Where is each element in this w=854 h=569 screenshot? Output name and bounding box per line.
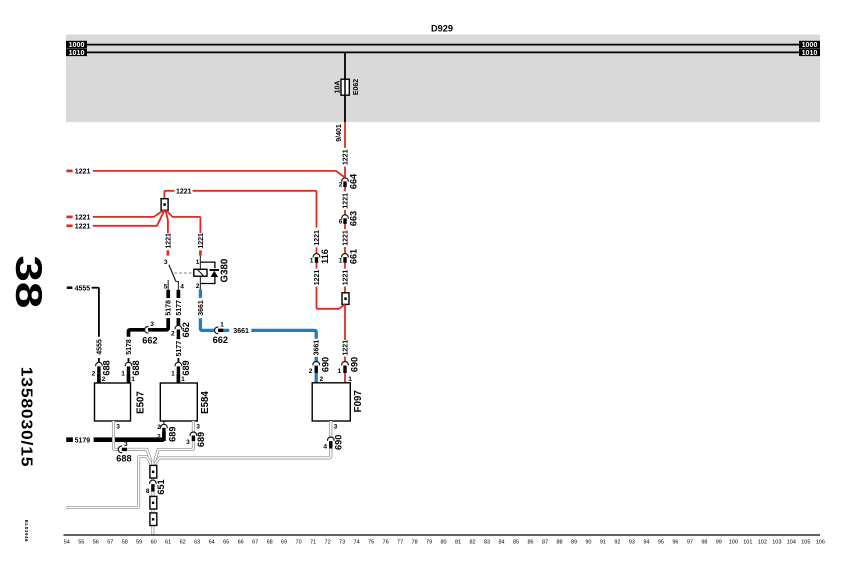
svg-text:60: 60: [151, 539, 157, 545]
svg-text:75: 75: [368, 539, 374, 545]
wire bus 1000: [86, 44, 800, 46]
relay contact pin 4: [176, 282, 179, 290]
relay contact pin 5: [167, 280, 169, 290]
svg-text:87: 87: [542, 539, 548, 545]
svg-text:E507: E507: [136, 391, 147, 414]
svg-text:3661: 3661: [314, 340, 321, 356]
splice junction upper: [161, 199, 168, 211]
wire 1221 into F097 pin 1: [342, 362, 349, 374]
svg-text:2: 2: [171, 331, 175, 338]
svg-text:70: 70: [296, 539, 302, 545]
wire 1221 to relay contact: [166, 210, 168, 233]
connector 689 pin 2: [163, 421, 165, 428]
svg-text:71: 71: [310, 539, 316, 545]
svg-text:116: 116: [320, 249, 330, 264]
svg-text:90: 90: [585, 539, 591, 545]
svg-text:56: 56: [93, 539, 99, 545]
svg-text:1221: 1221: [342, 340, 349, 356]
svg-text:5: 5: [164, 284, 168, 291]
svg-text:5179: 5179: [75, 437, 91, 444]
svg-text:58: 58: [122, 539, 128, 545]
svg-text:3: 3: [124, 441, 128, 448]
svg-text:662: 662: [213, 335, 228, 345]
svg-text:102: 102: [758, 539, 767, 545]
svg-text:1: 1: [171, 371, 175, 378]
svg-text:82: 82: [469, 539, 475, 545]
svg-text:2: 2: [309, 368, 313, 375]
svg-text:72: 72: [325, 539, 331, 545]
net label 1010 right: [799, 49, 820, 57]
wire bus 1010: [86, 51, 800, 53]
svg-text:59: 59: [136, 539, 142, 545]
svg-text:57: 57: [107, 539, 113, 545]
svg-text:2: 2: [92, 371, 96, 378]
splice box 1: [150, 465, 157, 478]
harness E584 pin 3 to splice: [154, 421, 193, 463]
svg-text:64: 64: [209, 539, 215, 545]
svg-text:8: 8: [146, 488, 150, 495]
svg-text:1221: 1221: [75, 169, 91, 176]
svg-text:95: 95: [658, 539, 664, 545]
svg-text:104: 104: [787, 539, 796, 545]
component F097: [312, 383, 350, 421]
harness E507 pin 3 to splice: [114, 421, 152, 463]
wire below fuse: [344, 95, 346, 122]
svg-text:89: 89: [571, 539, 577, 545]
svg-text:1000: 1000: [802, 41, 818, 49]
svg-text:80: 80: [440, 539, 446, 545]
svg-text:661: 661: [349, 249, 359, 264]
svg-text:1221: 1221: [314, 270, 321, 286]
svg-text:3: 3: [150, 321, 154, 328]
svg-text:84: 84: [498, 539, 504, 545]
svg-text:1010: 1010: [802, 49, 818, 57]
svg-text:101: 101: [743, 539, 752, 545]
svg-text:3661: 3661: [233, 328, 249, 335]
component E584: [160, 383, 197, 421]
svg-text:92: 92: [614, 539, 620, 545]
connector 663 pin 6: [342, 215, 349, 224]
svg-text:1221: 1221: [75, 215, 91, 222]
svg-text:38: 38: [7, 255, 49, 308]
svg-text:81: 81: [455, 539, 461, 545]
svg-text:9/401: 9/401: [336, 124, 343, 142]
svg-text:689: 689: [181, 360, 191, 375]
svg-text:78: 78: [412, 539, 418, 545]
harness F097 pin 3 to splice: [154, 421, 331, 465]
svg-text:663: 663: [349, 211, 359, 226]
svg-text:96: 96: [672, 539, 678, 545]
fuse E062 10A: [341, 79, 349, 95]
net label 1000 right: [799, 41, 820, 49]
svg-text:1: 1: [121, 371, 125, 378]
svg-text:5178: 5178: [126, 339, 133, 355]
svg-text:688: 688: [101, 360, 111, 375]
svg-text:3: 3: [196, 423, 200, 430]
svg-text:5178: 5178: [166, 300, 173, 316]
svg-text:3: 3: [116, 423, 120, 430]
svg-text:91: 91: [600, 539, 606, 545]
svg-text:67: 67: [252, 539, 258, 545]
svg-text:94: 94: [643, 539, 649, 545]
svg-text:690: 690: [321, 357, 331, 372]
wire 1221 left lower: [66, 224, 72, 227]
svg-text:65: 65: [223, 539, 229, 545]
svg-text:1010: 1010: [69, 49, 85, 57]
svg-text:EL03946: EL03946: [24, 520, 29, 542]
splice box 2: [150, 496, 157, 509]
svg-text:5177: 5177: [176, 300, 183, 316]
svg-text:3: 3: [334, 423, 338, 430]
connector 690 pin 4: [328, 437, 335, 449]
svg-text:662: 662: [181, 322, 191, 337]
svg-text:66: 66: [238, 539, 244, 545]
svg-text:688: 688: [116, 453, 131, 463]
svg-text:4555: 4555: [96, 339, 103, 355]
svg-text:4: 4: [180, 284, 184, 291]
net label 1010 left: [66, 49, 87, 57]
svg-text:4: 4: [323, 444, 327, 451]
svg-text:662: 662: [142, 335, 157, 345]
svg-text:74: 74: [354, 539, 360, 545]
svg-text:3: 3: [164, 259, 168, 266]
connector 662 pin 3: [145, 327, 154, 334]
svg-text:1: 1: [131, 376, 135, 383]
svg-text:106: 106: [816, 539, 825, 545]
wire 1221 splice-to-116 horizontal: [164, 191, 174, 199]
mechanical link dashed: [175, 272, 194, 274]
svg-text:E062: E062: [353, 79, 360, 95]
svg-text:85: 85: [513, 539, 519, 545]
connector 651 pin 8: [150, 480, 157, 492]
svg-text:1221: 1221: [176, 188, 192, 195]
svg-text:73: 73: [339, 539, 345, 545]
svg-text:1: 1: [181, 376, 185, 383]
svg-text:664: 664: [349, 173, 359, 189]
svg-text:1: 1: [338, 368, 342, 375]
svg-text:93: 93: [629, 539, 635, 545]
svg-text:1221: 1221: [342, 230, 349, 246]
svg-text:E584: E584: [200, 391, 211, 414]
wire 1221 top horizontal: [66, 170, 72, 173]
svg-text:1221: 1221: [342, 193, 349, 209]
connector 664 pin 2: [342, 178, 349, 187]
svg-text:63: 63: [194, 539, 200, 545]
svg-text:99: 99: [716, 539, 722, 545]
connector 116 pin 1: [313, 254, 320, 263]
svg-text:1358030/15: 1358030/15: [18, 367, 36, 468]
svg-text:4555: 4555: [75, 285, 91, 292]
svg-text:97: 97: [687, 539, 693, 545]
svg-text:100: 100: [729, 539, 738, 545]
svg-text:88: 88: [556, 539, 562, 545]
power rail band: [66, 35, 820, 123]
svg-text:54: 54: [64, 539, 70, 545]
svg-text:G380: G380: [220, 259, 231, 283]
svg-text:689: 689: [196, 432, 206, 447]
splice junction on 1221 main: [342, 293, 349, 305]
connector 662 pin 2: [175, 325, 182, 337]
svg-text:1221: 1221: [165, 233, 172, 249]
svg-text:2: 2: [102, 376, 106, 383]
svg-text:1221: 1221: [198, 233, 205, 249]
svg-text:688: 688: [131, 360, 141, 375]
component E507: [95, 383, 131, 421]
splice box 3: [150, 513, 157, 526]
svg-text:F097: F097: [353, 390, 364, 412]
svg-text:690: 690: [349, 357, 359, 372]
ruler base line: [64, 534, 821, 536]
wire 5177 from relay pin 4: [177, 290, 181, 298]
svg-text:1221: 1221: [75, 224, 91, 231]
connector 662 pin 1: [215, 327, 224, 334]
svg-text:103: 103: [772, 539, 781, 545]
wire 1221 left upper: [66, 216, 72, 219]
svg-text:83: 83: [484, 539, 490, 545]
wire 5178 from relay pin 5: [166, 290, 170, 298]
svg-text:79: 79: [426, 539, 432, 545]
svg-text:2: 2: [157, 424, 161, 431]
wire 1221 main vertical: [344, 122, 346, 148]
svg-text:2: 2: [196, 283, 200, 290]
svg-text:690: 690: [333, 435, 343, 450]
svg-text:1: 1: [196, 259, 200, 266]
svg-text:69: 69: [281, 539, 287, 545]
svg-text:2: 2: [339, 182, 343, 189]
wire fuse feed: [344, 52, 346, 79]
net label 1000 left: [66, 41, 87, 49]
svg-text:10A: 10A: [335, 81, 342, 94]
connector 688 pin 2: [96, 362, 103, 374]
svg-text:1221: 1221: [342, 149, 349, 165]
connector 688 pin 3: [118, 446, 127, 453]
svg-text:3661: 3661: [198, 300, 205, 316]
wire 5179: [66, 437, 73, 442]
svg-text:76: 76: [383, 539, 389, 545]
connector 661 pin 1: [342, 254, 349, 263]
svg-text:1: 1: [220, 322, 224, 329]
svg-text:68: 68: [267, 539, 273, 545]
svg-text:6: 6: [339, 219, 343, 226]
svg-text:77: 77: [397, 539, 403, 545]
svg-text:61: 61: [165, 539, 171, 545]
svg-text:689: 689: [168, 427, 178, 442]
svg-text:105: 105: [801, 539, 810, 545]
wire 4555: [67, 286, 73, 289]
svg-text:86: 86: [527, 539, 533, 545]
svg-text:1: 1: [339, 257, 343, 264]
svg-text:1221: 1221: [342, 270, 349, 286]
svg-text:1221: 1221: [314, 230, 321, 246]
svg-text:62: 62: [180, 539, 186, 545]
harness to left margin: [66, 457, 151, 508]
svg-text:98: 98: [701, 539, 707, 545]
svg-text:D929: D929: [431, 24, 453, 34]
svg-text:1000: 1000: [69, 41, 85, 49]
harness main vertical: [151, 461, 154, 535]
svg-text:1: 1: [310, 258, 314, 265]
wire 1221 to G380: [166, 210, 200, 233]
svg-text:55: 55: [78, 539, 84, 545]
svg-text:651: 651: [156, 479, 166, 494]
wire 3661 blue from G380: [199, 289, 202, 298]
svg-text:3: 3: [186, 439, 190, 446]
svg-text:5177: 5177: [176, 341, 183, 357]
svg-text:2: 2: [157, 433, 161, 440]
connector 689 pin 3: [190, 432, 197, 441]
